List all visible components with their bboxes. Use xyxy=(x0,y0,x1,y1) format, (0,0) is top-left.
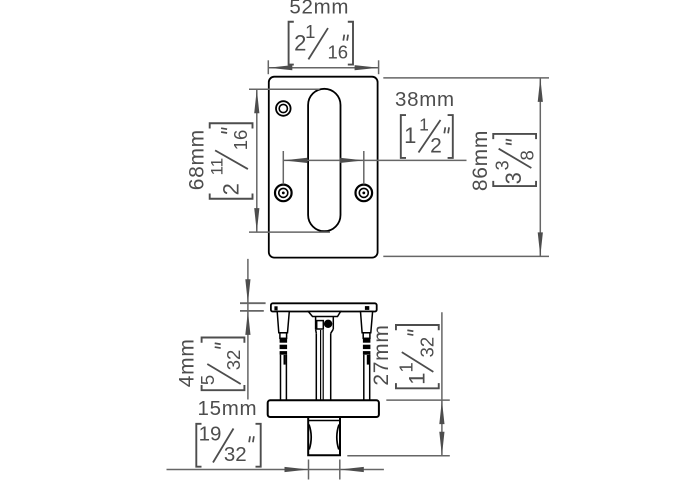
mounting screw left (side view) xyxy=(277,312,289,400)
dim 27mm: extension line top xyxy=(386,399,450,401)
dim 86mm: extension line bottom xyxy=(383,255,549,257)
dim 86mm: dimension line xyxy=(539,78,541,257)
dim 68mm: dimension line xyxy=(256,89,258,232)
label [3 3/8 inch] (rotated) xyxy=(492,134,537,186)
dim 68mm: arrow down xyxy=(254,208,259,232)
dim 4mm: vertical dimension line xyxy=(247,259,249,400)
dim 4mm: arrow down (from above) xyxy=(245,279,250,303)
label [1 1/32 inch] (rotated) xyxy=(396,325,439,388)
label [2 1/16 inch] xyxy=(289,22,294,65)
dim 38mm: extension line left xyxy=(282,151,284,184)
svg-text:16: 16 xyxy=(328,41,349,62)
dim 52mm: arrow right xyxy=(355,65,379,70)
svg-text:68mm: 68mm xyxy=(186,129,209,190)
screw head mark left (filled square) xyxy=(274,306,277,310)
screw hole H3 (bottom-right) xyxy=(356,185,373,202)
front view: pull plate outline xyxy=(269,77,378,258)
svg-text:32: 32 xyxy=(223,350,244,371)
svg-text:32: 32 xyxy=(416,337,437,358)
svg-text:8: 8 xyxy=(517,150,538,160)
dim 15mm: arrow right-pointing xyxy=(285,467,309,472)
svg-text:5: 5 xyxy=(197,375,218,385)
dim 15mm: extension line left xyxy=(308,460,310,480)
dim 4mm: arrow up (from below) xyxy=(245,311,250,335)
svg-text:1: 1 xyxy=(419,115,429,135)
dim 38mm: arrow right xyxy=(340,158,364,163)
finger slot (obround) xyxy=(308,89,340,231)
dim 86mm: arrow up xyxy=(538,78,543,102)
svg-text:1: 1 xyxy=(305,21,315,42)
dim 27mm: dimension line xyxy=(441,312,443,456)
dim 27mm: extension line bottom xyxy=(347,455,450,457)
label 68mm (rotated) xyxy=(186,129,209,190)
dim 27mm: arrow up xyxy=(439,400,444,424)
svg-text:1: 1 xyxy=(396,362,417,372)
svg-text:15mm: 15mm xyxy=(198,397,258,420)
svg-text:27mm: 27mm xyxy=(370,324,393,385)
side view: plate (edge-on) xyxy=(271,303,377,311)
svg-text:1: 1 xyxy=(404,123,416,148)
dim 4mm: tick bottom xyxy=(240,310,264,312)
dim 86mm: arrow down xyxy=(538,232,543,256)
knob/nose below base plate xyxy=(308,417,340,455)
svg-text:2: 2 xyxy=(219,183,244,195)
dim 68mm: extension line top xyxy=(249,88,320,90)
dim 38mm: dimension/leader line xyxy=(283,159,466,161)
svg-text:3: 3 xyxy=(501,172,526,184)
screw head mark right (filled square) xyxy=(365,306,369,310)
label [5/32 inch] (rotated) xyxy=(197,338,244,391)
dim 4mm: tick top xyxy=(240,302,266,304)
svg-text:19: 19 xyxy=(199,423,222,446)
dim 15mm: arrow left-pointing xyxy=(340,467,364,472)
dim 38mm: extension line right xyxy=(363,151,365,184)
dim 86mm: extension line top xyxy=(383,77,549,79)
dim 27mm: arrow down xyxy=(439,432,444,456)
screw hole H2 (bottom-left) xyxy=(275,185,292,202)
dim 52mm: extension line left xyxy=(267,60,269,74)
svg-text:32: 32 xyxy=(224,443,247,466)
svg-text:3: 3 xyxy=(492,160,512,170)
label 4mm (rotated) xyxy=(175,338,198,387)
svg-text:16: 16 xyxy=(230,130,251,151)
svg-text:52mm: 52mm xyxy=(289,0,349,19)
base plate (side view) xyxy=(268,400,379,417)
dim 15mm: dimension line with tails xyxy=(167,469,384,471)
mounting screw right (side view) xyxy=(361,312,373,400)
svg-text:86mm: 86mm xyxy=(469,130,492,191)
dim 15mm: extension line right xyxy=(339,460,341,480)
label [1 1/2 inch] xyxy=(401,115,406,158)
svg-text:11: 11 xyxy=(208,158,227,176)
dim 52mm: extension line right xyxy=(378,60,380,74)
label [19/32 inch] xyxy=(196,424,201,467)
label 27mm (rotated) xyxy=(370,324,393,385)
svg-text:2: 2 xyxy=(430,135,442,158)
dim 52mm: arrow left xyxy=(268,65,292,70)
dim 68mm: extension line bottom xyxy=(249,231,330,233)
spindle mechanism (center) xyxy=(308,312,340,400)
dim 68mm: arrow up xyxy=(254,89,259,113)
screw hole H1 (top-left) xyxy=(276,101,291,116)
label 86mm (rotated) xyxy=(469,130,492,191)
svg-text:38mm: 38mm xyxy=(395,88,455,111)
svg-text:1: 1 xyxy=(404,372,429,384)
svg-text:4mm: 4mm xyxy=(175,338,198,387)
label [2 11/16 inch] (rotated) xyxy=(208,123,253,199)
dim 38mm: arrow left xyxy=(283,158,307,163)
dim 52mm: dimension line xyxy=(268,67,378,69)
